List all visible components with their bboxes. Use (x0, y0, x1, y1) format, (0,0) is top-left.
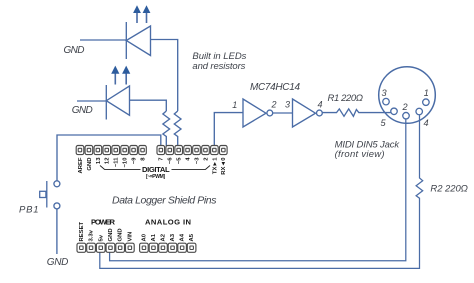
svg-text:1: 1 (232, 100, 237, 110)
svg-text:1: 1 (424, 88, 429, 98)
svg-text:GND: GND (108, 228, 114, 241)
svg-text:A5: A5 (189, 233, 195, 241)
svg-text:2: 2 (402, 102, 408, 112)
svg-text:4: 4 (318, 100, 323, 110)
svg-text:A0: A0 (141, 233, 147, 241)
svg-text:TX►1: TX►1 (212, 157, 218, 174)
svg-text:RX◄0: RX◄0 (221, 157, 227, 175)
svg-text:5: 5 (381, 118, 387, 128)
svg-text:(front view): (front view) (335, 149, 385, 160)
svg-text:RESET: RESET (79, 221, 85, 241)
svg-text:2: 2 (271, 100, 277, 110)
svg-text:GND: GND (118, 228, 124, 241)
svg-text:7: 7 (159, 157, 165, 161)
svg-text:and resistors: and resistors (192, 61, 245, 72)
svg-text:A4: A4 (180, 233, 186, 241)
svg-text:Data Logger Shield Pins: Data Logger Shield Pins (112, 195, 217, 207)
svg-text:~11: ~11 (114, 157, 120, 167)
svg-text:GND: GND (47, 257, 69, 268)
svg-text:A2: A2 (161, 233, 167, 241)
svg-text:~3: ~3 (194, 157, 200, 164)
svg-text:5v: 5v (98, 234, 104, 241)
svg-text:4: 4 (186, 157, 192, 161)
svg-text:VIN: VIN (127, 232, 133, 242)
svg-text:AREF: AREF (78, 157, 84, 173)
svg-text:~6: ~6 (168, 157, 174, 164)
svg-text:~5: ~5 (177, 157, 183, 164)
svg-text:ANALOG IN: ANALOG IN (145, 217, 191, 226)
svg-text:3: 3 (285, 100, 290, 110)
svg-text:GND: GND (72, 105, 93, 116)
svg-text:12: 12 (105, 157, 111, 164)
svg-text:R1 220Ω: R1 220Ω (328, 93, 364, 104)
svg-text:~9: ~9 (132, 157, 138, 164)
svg-text:13: 13 (96, 157, 102, 164)
svg-text:PB1: PB1 (19, 205, 39, 216)
svg-text:DIGITAL: DIGITAL (142, 165, 170, 174)
svg-text:MC74HC14: MC74HC14 (250, 82, 300, 93)
svg-text:3.3v: 3.3v (89, 229, 95, 241)
svg-text:2: 2 (203, 157, 209, 161)
svg-text:R2 220Ω: R2 220Ω (430, 184, 468, 195)
svg-text:8: 8 (140, 157, 146, 161)
svg-text:A3: A3 (170, 233, 176, 241)
svg-text:3: 3 (382, 88, 388, 98)
svg-text:4: 4 (424, 118, 429, 128)
svg-text:POWER: POWER (91, 217, 116, 226)
svg-text:GND: GND (64, 45, 85, 56)
svg-text:[~=PWM]: [~=PWM] (146, 174, 165, 180)
svg-text:~10: ~10 (123, 157, 129, 168)
svg-text:GND: GND (87, 158, 93, 171)
svg-text:A1: A1 (151, 233, 157, 241)
